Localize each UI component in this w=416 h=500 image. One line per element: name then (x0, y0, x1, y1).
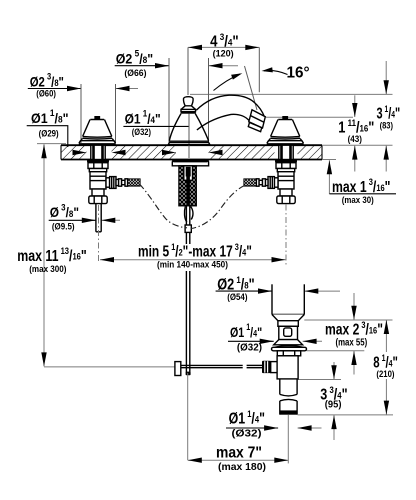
spout finial (181, 97, 196, 114)
svg-text:(95): (95) (325, 399, 342, 411)
svg-text:(Ø9.5): (Ø9.5) (52, 221, 75, 232)
braided hose (128, 179, 141, 186)
O32 center hole arrows (162, 150, 176, 155)
dim O66 arrows and extensions (115, 65, 169, 67)
svg-text:16°: 16° (287, 65, 310, 82)
spout threaded shank (179, 166, 196, 206)
drain top tube (272, 284, 304, 314)
svg-text:(Ø66): (Ø66) (124, 67, 146, 77)
drain collar (278, 321, 298, 327)
drain taper (272, 315, 304, 321)
svg-text:(43): (43) (348, 133, 362, 144)
svg-text:(Ø60): (Ø60) (36, 88, 56, 99)
dim 3 1/4 vertical (385, 61, 387, 94)
svg-text:(Ø29): (Ø29) (39, 128, 59, 139)
drain locknut (277, 351, 300, 356)
dim min5.5-max17.75 hose length (100, 259, 286, 261)
right flexible hose phantom curve (191, 186, 245, 229)
valve body (90, 172, 106, 189)
lift rod end cap (186, 372, 191, 376)
lift rod middle (186, 232, 189, 244)
right valve shank in counter (279, 145, 293, 159)
16 degree slant stream line (245, 66, 258, 110)
drain clevis block (271, 362, 278, 373)
valve locknut (276, 163, 296, 169)
spout base escutcheon (168, 114, 210, 145)
valve compression nut (277, 196, 295, 204)
valve washer (87, 160, 109, 163)
left flexible hose phantom curve (140, 184, 188, 228)
drain flange (272, 346, 307, 351)
drain lower tube (280, 401, 297, 415)
horizontal pivot rod (181, 365, 262, 367)
aerator height reference line (190, 93, 393, 95)
max11 top reference line (37, 143, 66, 145)
drain body with overflow hole (279, 326, 298, 339)
dim O54 (216, 290, 272, 292)
left handle (79, 116, 116, 144)
tube break symbol (280, 394, 297, 401)
valve collar (277, 169, 294, 172)
svg-text:(max 55): (max 55) (336, 337, 368, 348)
valve locknut (88, 163, 108, 169)
right handle (267, 116, 304, 144)
dim max 1 3/16 leader (328, 160, 330, 194)
svg-text:(210): (210) (376, 368, 394, 379)
countertop hatched section (61, 145, 322, 159)
valve body (278, 172, 294, 189)
drain flare (274, 340, 303, 345)
svg-text:(max 300): (max 300) (29, 264, 66, 275)
right hose end hook (191, 207, 193, 220)
left supply tube (96, 204, 101, 232)
svg-text:(Ø32): (Ø32) (232, 428, 262, 439)
dim 3 3/4 vertical (333, 362, 335, 379)
right valve centerline (285, 205, 287, 267)
valve compression nut (89, 196, 107, 204)
spout centerline (188, 114, 190, 158)
spout shank flange (172, 160, 208, 166)
svg-text:(max 180): (max 180) (218, 462, 266, 473)
dim max 2 3/16 vertical (353, 293, 355, 320)
drain collar reference line (304, 319, 392, 321)
svg-text:(Ø32): (Ø32) (132, 126, 151, 137)
O32 center label leader (123, 125, 189, 127)
valve lower neck (280, 189, 292, 196)
lift rod height reference line (44, 366, 175, 368)
valve hose nut (110, 177, 116, 189)
spout aerator (248, 110, 265, 132)
svg-text:(120): (120) (213, 48, 234, 58)
svg-text:(Ø54): (Ø54) (227, 291, 247, 302)
spout body (196, 95, 264, 130)
valve hose nut (268, 177, 274, 189)
counter top reference extension (322, 144, 393, 146)
counter bottom reference extension (322, 159, 336, 161)
braided hose (244, 179, 257, 186)
drain centerline (287, 415, 289, 464)
drain tee body (277, 356, 298, 379)
lift rod upper (186, 205, 189, 225)
left valve shank in counter (91, 145, 105, 159)
svg-text:(Ø32): (Ø32) (237, 342, 262, 353)
left hose end hook (184, 207, 186, 223)
lift rod lower (186, 271, 189, 372)
valve outlet port (106, 178, 110, 187)
drain tee bottom reference line (298, 379, 341, 381)
dim O32 bottom tube (226, 427, 278, 429)
lift rod coupling (185, 225, 191, 232)
svg-text:(min 140-max 450): (min 140-max 450) (157, 259, 228, 270)
valve washer (275, 160, 297, 163)
dim O60 arrows and extensions (28, 88, 81, 90)
O29 hole arrows (73, 150, 87, 155)
drain flange reference line (307, 350, 365, 352)
max7 left extension (187, 373, 189, 460)
left supply centerline (98, 205, 100, 262)
16 degree angle arc right with leader (264, 70, 288, 74)
svg-text:(83): (83) (380, 119, 394, 130)
dim max11 vertical (43, 144, 45, 366)
valve collar (89, 169, 106, 172)
handle top reference line (266, 116, 353, 118)
hose fittings (116, 179, 119, 185)
drain tailpiece (280, 379, 297, 395)
svg-text:(max 30): (max 30) (342, 194, 374, 205)
hose fittings (265, 179, 268, 185)
drain tube end reference line (298, 414, 393, 416)
16 degree angle arc left (214, 74, 241, 91)
valve outlet port (274, 178, 278, 187)
O29 label leader (27, 126, 68, 147)
lift rod strap (175, 362, 181, 376)
dim 8 1/4 vertical (385, 320, 387, 352)
dim max7 line (188, 459, 288, 461)
dim O32 drain flare (228, 340, 274, 342)
svg-text:max 7": max 7" (216, 445, 262, 462)
dim 1 11/16 vertical (354, 95, 356, 117)
valve lower neck (92, 189, 104, 196)
pivot rod connector (262, 361, 271, 373)
dim O9.5 (49, 219, 96, 221)
dim 4 3/4 line and extensions (188, 46, 259, 48)
